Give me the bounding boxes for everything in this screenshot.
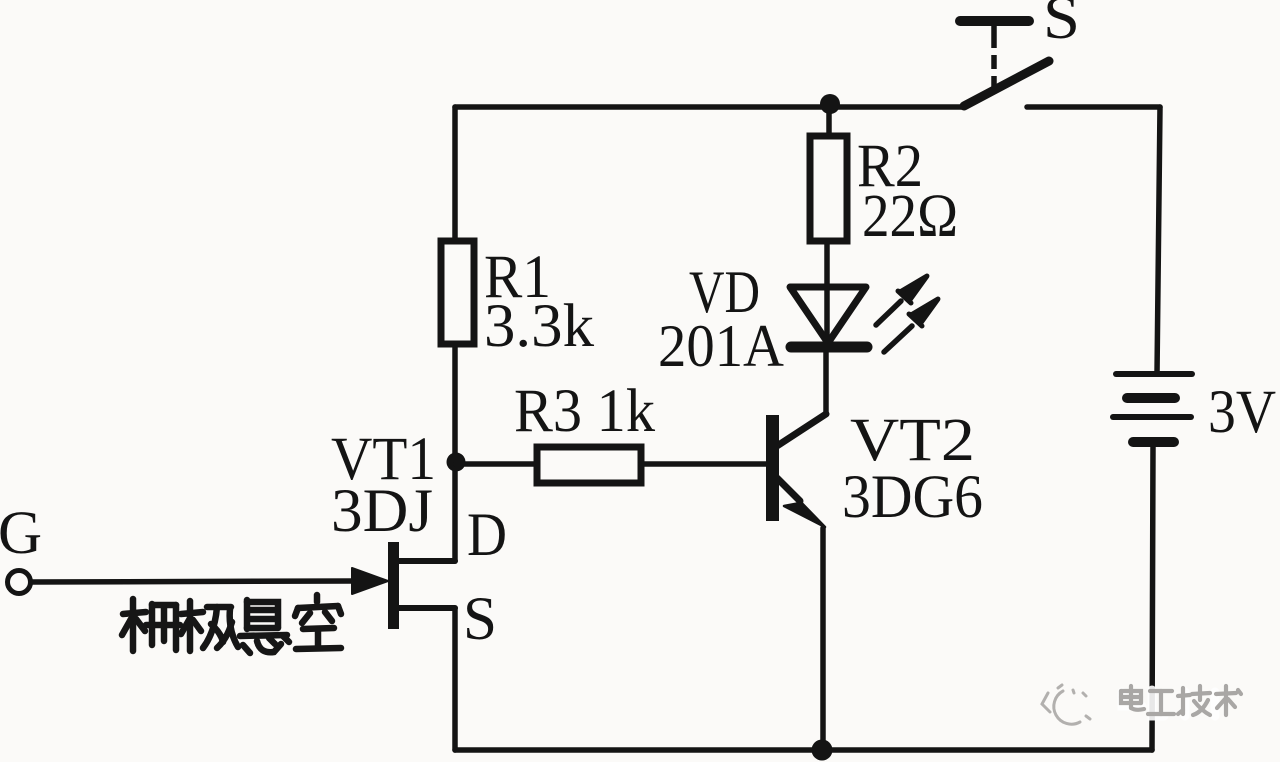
wire right rail upper to battery (1157, 107, 1160, 374)
LED VD triangle (790, 287, 866, 343)
char kong (empty) (295, 595, 341, 649)
transistor VT1 drain lead (397, 558, 455, 564)
watermark logo circle (1042, 685, 1090, 724)
svg-text:S: S (1043, 0, 1080, 52)
char ji (1178, 686, 1210, 715)
LED light arrow 2 (884, 326, 912, 352)
wire VT2 collector up to LED cathode (823, 352, 829, 414)
junction node bottom rail / VT2 emitter (812, 740, 833, 761)
char gong (1148, 691, 1174, 714)
transistor VT1 gate bar (388, 542, 399, 629)
gate arrowhead (352, 568, 388, 594)
label gate floating (Chinese, hand drawn strokes) (122, 595, 341, 653)
battery plate long top (1116, 371, 1192, 377)
LED light arrow 1 (876, 301, 901, 325)
transistor VT2 emitter stroke with arrow (777, 478, 800, 501)
wire left rail lower from S corner to bottom (452, 608, 458, 750)
wire right rail lower battery to bottom (1152, 446, 1153, 750)
battery plate short thick bottom (1133, 437, 1174, 447)
transistor VT2 base bar (766, 415, 779, 521)
switch S pushbutton stem dashed (991, 26, 997, 88)
svg-text:D: D (467, 502, 507, 569)
resistor R1 (441, 241, 474, 344)
char ji (pole) (181, 601, 238, 651)
resistor R2 (810, 136, 847, 241)
wire left rail from R1 bottom through node to D corner (452, 344, 458, 561)
switch S pushbutton cap (960, 16, 1029, 26)
junction node at R1 bottom / R3 left (447, 453, 466, 472)
wire from switch right contact to top right corner (1027, 104, 1160, 110)
char shu (1216, 686, 1241, 715)
battery plate short thick (1127, 393, 1175, 403)
char xuan (suspend) (240, 600, 289, 653)
LED VD anode wire through triangle (824, 241, 830, 341)
svg-text:3V: 3V (1208, 379, 1276, 446)
junction node top rail / R2 (820, 94, 840, 114)
svg-text:G: G (0, 500, 42, 567)
switch S blade (964, 61, 1049, 106)
svg-text:3.3k: 3.3k (484, 293, 595, 360)
wire VT2 emitter down to bottom rail (820, 528, 826, 750)
wire gate lead from terminal (31, 581, 355, 582)
resistor R3 (537, 447, 641, 483)
wire top rail from left rail to switch left contact (455, 104, 963, 110)
LED VD cathode bar (791, 342, 867, 353)
transistor VT2 emitter arrowhead (784, 493, 825, 527)
terminal G circle (8, 571, 31, 594)
svg-text:S: S (463, 586, 497, 653)
char dian (1121, 686, 1144, 710)
wire bottom rail (455, 747, 1152, 753)
watermark text dian gong ji shu (1122, 690, 1215, 716)
wire R2 top lead (826, 107, 832, 136)
svg-text:22Ω: 22Ω (862, 183, 958, 250)
battery plate long lower (1113, 414, 1191, 420)
svg-text:201A: 201A (658, 313, 784, 379)
svg-text:R3 1k: R3 1k (514, 378, 655, 445)
wire R3 left lead (456, 461, 537, 467)
wire left rail upper (top corner down to R1 top) (452, 107, 458, 244)
char shan (fence) (122, 599, 180, 651)
transistor VT1 source lead (397, 605, 455, 611)
transistor VT2 collector stroke (777, 414, 826, 446)
svg-text:3DG6: 3DG6 (842, 464, 983, 531)
svg-text:3DJ: 3DJ (331, 478, 433, 545)
wire R3 right lead to VT2 base (641, 461, 766, 467)
